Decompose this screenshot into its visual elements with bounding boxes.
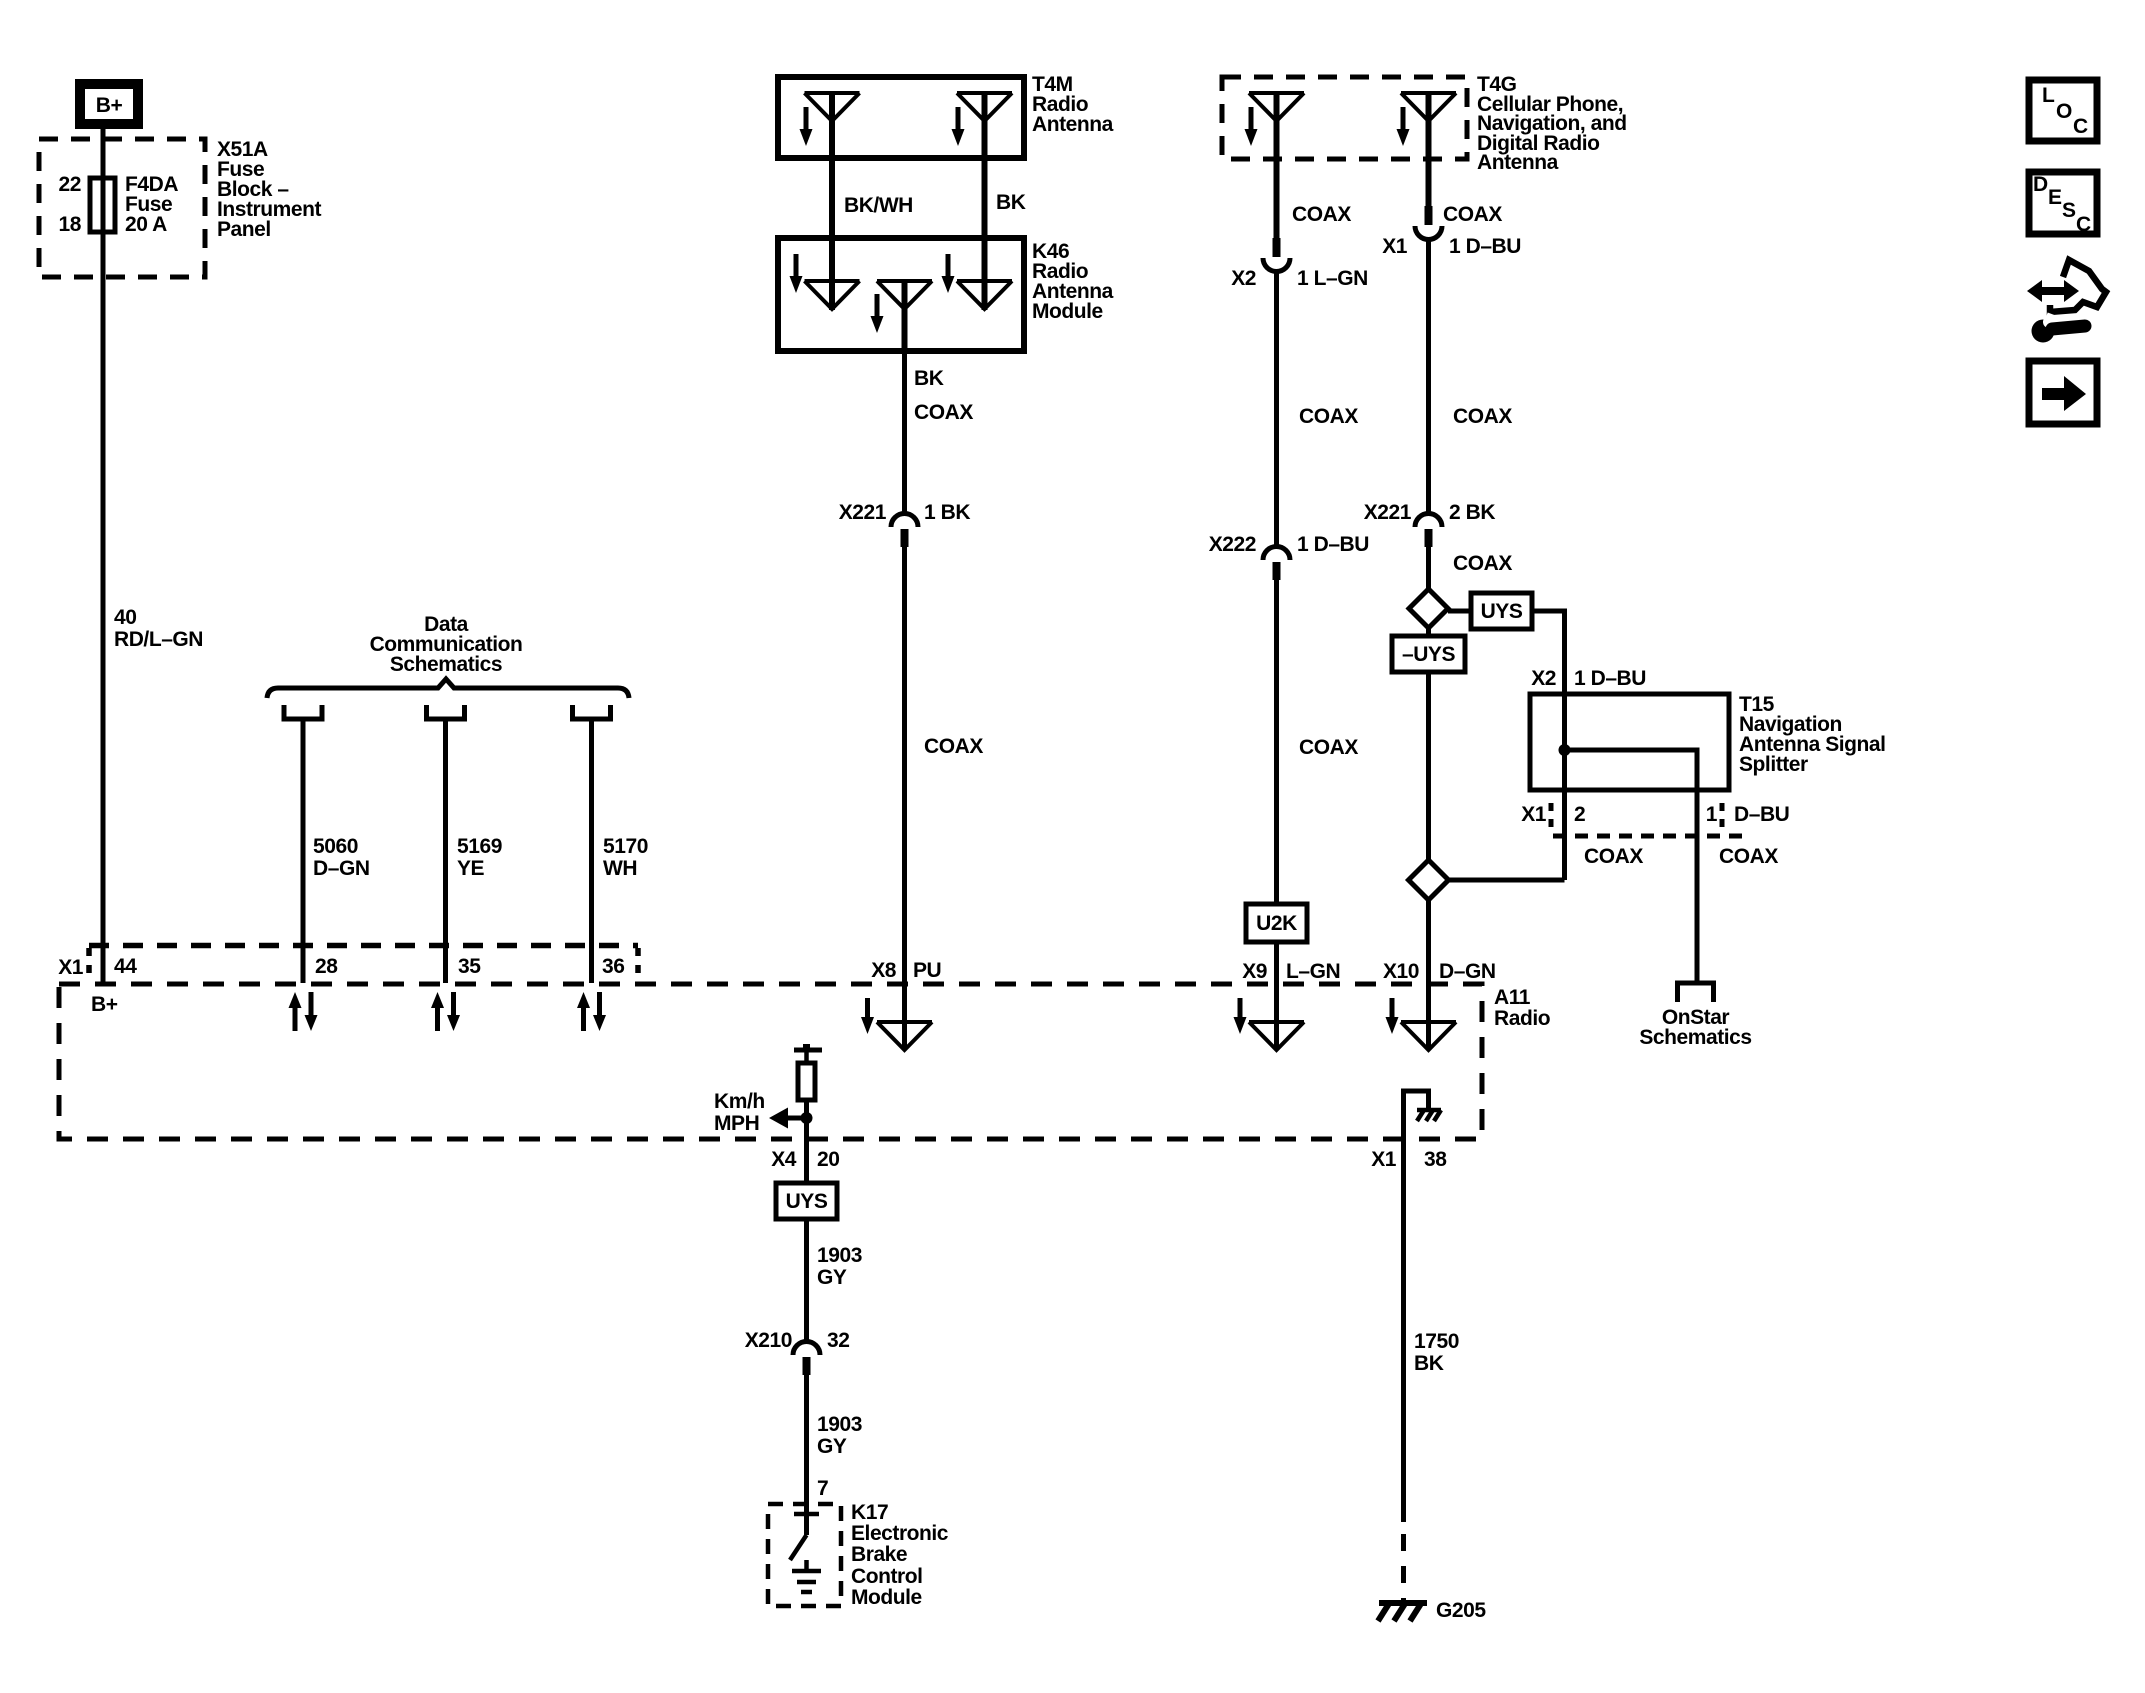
wire T15 internal junction to output pin 1 <box>1565 750 1698 790</box>
inline connector X2 1 L-GN <box>1263 238 1290 272</box>
wire X221 to splice diamond <box>1426 547 1431 590</box>
dashed wire segment to G205 <box>1401 1534 1406 1604</box>
svg-text:T4MRadioAntenna: T4MRadioAntenna <box>1032 73 1114 136</box>
T15 connector X1 dashed row line <box>1553 834 1745 839</box>
antenna symbol inside radio at X8 <box>877 1022 932 1050</box>
off-page terminal for wire 5170 <box>573 705 611 719</box>
wire BK/WH T4M to K46 <box>829 93 835 310</box>
svg-text:COAX: COAX <box>1292 203 1351 226</box>
svg-text:B+: B+ <box>91 993 118 1016</box>
svg-text:20: 20 <box>817 1148 839 1171</box>
wire radio X4-20 to UYS <box>804 1139 809 1183</box>
svg-text:BK: BK <box>996 191 1026 214</box>
svg-text:5060D–GN: 5060D–GN <box>313 835 370 880</box>
antenna symbol K46 right <box>957 281 1012 309</box>
wire T15 pin X2 through to pin X1-2 <box>1562 694 1567 880</box>
svg-text:X221: X221 <box>1364 501 1412 524</box>
svg-text:D–BU: D–BU <box>1734 803 1789 826</box>
svg-text:COAX: COAX <box>914 401 973 424</box>
option box UYS lower <box>776 1183 837 1219</box>
switch blade inside K17 <box>790 1535 807 1560</box>
ground symbol G205 <box>1378 1602 1427 1621</box>
svg-text:X1: X1 <box>1521 803 1547 826</box>
svg-text:T15NavigationAntenna SignalSpl: T15NavigationAntenna SignalSplitter <box>1739 693 1886 776</box>
arrow down inside radio at X10 <box>1386 998 1399 1034</box>
svg-text:1 D–BU: 1 D–BU <box>1449 235 1521 258</box>
svg-text:S: S <box>2062 199 2076 222</box>
svg-text:38: 38 <box>1424 1148 1447 1171</box>
svg-text:5170WH: 5170WH <box>603 835 648 880</box>
svg-text:F4DAFuse20 A: F4DAFuse20 A <box>125 173 178 236</box>
svg-text:X210: X210 <box>745 1329 792 1352</box>
svg-text:D–GN: D–GN <box>1439 960 1496 983</box>
svg-text:X51AFuseBlock –InstrumentPanel: X51AFuseBlock –InstrumentPanel <box>217 138 321 241</box>
svg-text:5169YE: 5169YE <box>457 835 502 880</box>
bidirectional arrows at pin 35 <box>431 992 460 1031</box>
coax wire X222 to U2K <box>1274 580 1279 904</box>
wire UYS box to T15 pin X2 <box>1532 611 1565 694</box>
wire BK K46 to connector X221 <box>902 351 907 513</box>
bidirectional arrows at pin 28 <box>289 992 318 1031</box>
inline connector X221 2 BK <box>1415 514 1442 548</box>
svg-text:D: D <box>2033 173 2048 196</box>
wire B+ to fuse F4DA <box>101 129 106 232</box>
fuse block X51A dashed box <box>39 139 205 277</box>
svg-text:A11Radio: A11Radio <box>1494 986 1550 1030</box>
svg-text:DataCommunicationSchematics: DataCommunicationSchematics <box>370 613 523 676</box>
svg-text:22: 22 <box>59 173 81 196</box>
wire 5170 WH to radio pin 36 <box>589 721 594 983</box>
svg-text:X2: X2 <box>1231 267 1256 290</box>
svg-text:PU: PU <box>913 959 941 982</box>
svg-text:C: C <box>2076 213 2091 236</box>
chassis ground symbol inside radio <box>1417 1110 1441 1121</box>
inline connector X210 pin 32 <box>793 1342 820 1376</box>
svg-text:B+: B+ <box>96 94 123 117</box>
svg-text:COAX: COAX <box>1453 405 1512 428</box>
antenna symbol T4G left <box>1249 93 1304 121</box>
wire diamond to radio pin X10 <box>1426 900 1431 1050</box>
icon wrench with arrows <box>2027 260 2106 343</box>
svg-text:32: 32 <box>827 1329 849 1352</box>
svg-text:1903GY: 1903GY <box>817 1413 862 1458</box>
svg-text:1 L–GN: 1 L–GN <box>1297 267 1368 290</box>
connector X1 dotted separator right <box>635 948 641 982</box>
resistor symbol inside radio <box>798 1063 815 1100</box>
svg-text:COAX: COAX <box>1584 845 1643 868</box>
svg-text:T4GCellular Phone,Navigation,: T4GCellular Phone,Navigation, andDigital… <box>1477 73 1627 174</box>
svg-text:1 BK: 1 BK <box>924 501 970 524</box>
svg-text:COAX: COAX <box>1453 552 1512 575</box>
off-page terminal for wire 5060 <box>284 705 322 719</box>
option box U2K <box>1246 904 1307 942</box>
ground symbol inside K17 <box>792 1560 821 1592</box>
svg-text:28: 28 <box>315 955 338 978</box>
icon DESC box <box>2029 172 2097 236</box>
svg-text:K17ElectronicBrakeControlModul: K17ElectronicBrakeControlModule <box>851 1501 949 1609</box>
splice diamond upper <box>1409 589 1448 628</box>
option box -UYS <box>1392 636 1465 672</box>
svg-text:X2: X2 <box>1531 667 1556 690</box>
icon LOC box <box>2029 80 2097 141</box>
T15 connector X1 dotted separator right <box>1720 803 1725 834</box>
option box UYS <box>1471 593 1532 629</box>
svg-text:X221: X221 <box>839 501 887 524</box>
svg-text:COAX: COAX <box>1443 203 1502 226</box>
svg-text:E: E <box>2048 186 2062 209</box>
inline connector X221 1 BK <box>891 514 918 548</box>
radio antenna module K46 box <box>778 238 1024 351</box>
wire BK T4M to K46 <box>982 93 988 310</box>
arrow down inside radio at X8 <box>861 998 874 1034</box>
fuse F4DA 20 A <box>90 178 115 232</box>
arrow down at T4G right antenna <box>1397 107 1410 146</box>
ground wire inside radio A11 <box>1404 1091 1429 1139</box>
pin tick inside K17 <box>794 1512 819 1517</box>
power symbol B+ <box>80 84 138 124</box>
junction node inside T15 <box>1559 744 1571 756</box>
svg-text:O: O <box>2056 100 2072 123</box>
wire 5169 YE to radio pin 35 <box>443 721 448 983</box>
wire 40 RD/L-GN fuse to radio pin 44 <box>101 232 106 983</box>
svg-text:X9: X9 <box>1242 960 1267 983</box>
coax wire X1 to connector X221 <box>1426 238 1431 513</box>
svg-text:7: 7 <box>817 1477 828 1500</box>
svg-text:COAX: COAX <box>924 735 983 758</box>
svg-text:44: 44 <box>114 955 137 978</box>
junction node at speed output <box>801 1112 813 1124</box>
svg-text:1 D–BU: 1 D–BU <box>1574 667 1646 690</box>
svg-text:COAX: COAX <box>1299 405 1358 428</box>
antenna symbol T4M left <box>805 93 860 121</box>
wire 1903 GY X210 to K17 <box>804 1375 809 1535</box>
antenna symbol K46 left <box>805 281 860 309</box>
svg-text:1 D–BU: 1 D–BU <box>1297 533 1369 556</box>
arrow down inside radio at X9 <box>1234 998 1247 1034</box>
svg-text:BK/WH: BK/WH <box>844 194 913 217</box>
svg-text:X4: X4 <box>771 1148 797 1171</box>
wire diamond to -UYS box <box>1426 628 1431 638</box>
svg-text:X1: X1 <box>1382 235 1408 258</box>
svg-text:2: 2 <box>1574 803 1585 826</box>
wire 1750 BK radio to ground <box>1401 1139 1406 1522</box>
arrow down inside K46 middle <box>871 294 884 333</box>
svg-text:OnStarSchematics: OnStarSchematics <box>1639 1006 1751 1049</box>
svg-text:L: L <box>2042 84 2055 107</box>
svg-text:X10: X10 <box>1383 960 1419 983</box>
svg-text:X1: X1 <box>58 956 84 979</box>
svg-text:COAX: COAX <box>1299 736 1358 759</box>
svg-text:X1: X1 <box>1371 1148 1397 1171</box>
coax wire T15 pin 1 to OnStar <box>1695 790 1700 983</box>
svg-text:1750BK: 1750BK <box>1414 1330 1459 1375</box>
navigation antenna signal splitter T15 box <box>1530 694 1729 790</box>
arrow down inside K46 left <box>790 254 803 293</box>
off-page terminal for wire 5169 <box>427 705 465 719</box>
inline connector X222 1 D-BU <box>1263 547 1290 581</box>
radio antenna T4M box <box>778 77 1024 158</box>
inline connector X1 1 D-BU <box>1415 206 1442 240</box>
svg-text:L–GN: L–GN <box>1286 960 1340 983</box>
coax wire X221 to radio pin X8 <box>902 547 907 1050</box>
arrow down at T4M right antenna <box>952 107 965 146</box>
wire T15 X1 pin 2 corner to splice diamond <box>1449 878 1565 883</box>
radio A11 connector X1 pin row dotted line <box>89 943 638 949</box>
connector X1 dotted separator left <box>86 948 92 982</box>
svg-text:1: 1 <box>1706 803 1718 826</box>
cellular phone navigation digital radio antenna T4G dashed box <box>1222 77 1467 159</box>
arrow down at T4M left antenna <box>800 107 813 146</box>
coax wire T4G right antenna to connector X1 <box>1426 93 1432 207</box>
electronic brake control module K17 dashed box <box>768 1504 841 1606</box>
svg-text:COAX: COAX <box>1719 845 1778 868</box>
T15 connector X1 dotted separator left <box>1549 803 1554 834</box>
brace over data communication wires <box>267 679 629 698</box>
wire 5060 D-GN to radio pin 28 <box>301 721 306 983</box>
off-page connector to OnStar schematics <box>1678 983 1714 1002</box>
svg-text:36: 36 <box>602 955 624 978</box>
wire -UYS box to splice diamond lower <box>1426 672 1431 861</box>
antenna symbol inside radio at X10 <box>1401 1022 1456 1050</box>
wire U2K to radio pin X9 <box>1274 942 1279 1050</box>
arrow down inside K46 right <box>942 254 955 293</box>
svg-text:18: 18 <box>59 213 82 236</box>
coax wire X2 to connector X222 <box>1274 270 1279 546</box>
arrow down at T4G left antenna <box>1245 107 1258 146</box>
antenna symbol T4M right <box>957 93 1012 121</box>
wire diamond to UYS box <box>1448 609 1471 614</box>
antenna symbol T4G right <box>1401 93 1456 121</box>
svg-text:X222: X222 <box>1209 533 1256 556</box>
svg-text:UYS: UYS <box>1481 600 1523 623</box>
coax wire T4G left antenna to connector X2 <box>1274 93 1280 240</box>
svg-text:UYS: UYS <box>786 1190 828 1213</box>
bidirectional arrows at pin 36 <box>577 992 606 1031</box>
svg-text:BK: BK <box>914 367 944 390</box>
wire 1903 GY UYS to X210 <box>804 1219 809 1341</box>
svg-text:X8: X8 <box>871 959 897 982</box>
wire resistor to junction <box>804 1100 809 1139</box>
svg-text:Km/hMPH: Km/hMPH <box>714 1090 765 1135</box>
svg-text:35: 35 <box>458 955 481 978</box>
svg-text:1903GY: 1903GY <box>817 1244 862 1289</box>
speed signal source symbol inside radio <box>794 1044 822 1063</box>
arrow to Km/h MPH <box>769 1108 807 1129</box>
svg-text:G205: G205 <box>1436 1599 1486 1622</box>
svg-text:40RD/L–GN: 40RD/L–GN <box>114 606 203 651</box>
svg-text:U2K: U2K <box>1256 912 1297 935</box>
svg-text:C: C <box>2073 115 2088 138</box>
svg-text:K46RadioAntennaModule: K46RadioAntennaModule <box>1032 240 1114 323</box>
radio A11 dashed box <box>59 984 1482 1139</box>
svg-text:–UYS: –UYS <box>1402 643 1456 666</box>
splice diamond lower <box>1409 860 1449 900</box>
wire stem K46 middle antenna <box>902 281 908 351</box>
icon arrow box <box>2029 361 2097 424</box>
svg-text:2 BK: 2 BK <box>1449 501 1495 524</box>
antenna symbol K46 middle <box>877 281 932 309</box>
antenna symbol inside radio at X9 <box>1249 1022 1304 1050</box>
